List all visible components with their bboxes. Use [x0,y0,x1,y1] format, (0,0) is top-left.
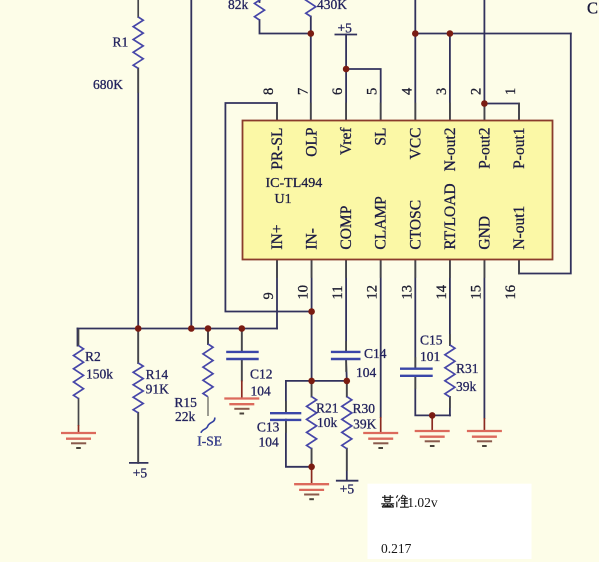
svg-text:C15: C15 [420,333,443,348]
svg-text:U1: U1 [275,192,292,207]
svg-text:PR-SL: PR-SL [269,128,286,170]
svg-text:R30: R30 [353,401,376,416]
svg-text:15: 15 [468,285,484,300]
svg-text:IC-TL494: IC-TL494 [266,176,323,191]
svg-text:CLAMP: CLAMP [373,196,390,249]
svg-text:N-out2: N-out2 [442,128,459,172]
svg-text:14: 14 [434,284,450,299]
svg-text:VCC: VCC [407,128,424,160]
svg-text:430K: 430K [317,0,347,12]
svg-text:+5: +5 [133,466,148,481]
svg-text:COMP: COMP [338,206,355,250]
svg-text:P-out2: P-out2 [476,128,493,169]
svg-text:104: 104 [251,384,272,399]
svg-text:OLP: OLP [304,128,321,157]
svg-text:+5: +5 [340,482,355,497]
svg-text:RT/LOAD: RT/LOAD [442,183,459,249]
svg-text:P-out1: P-out1 [511,128,528,169]
svg-text:5: 5 [365,88,381,95]
svg-text:680K: 680K [93,77,123,92]
svg-text:13: 13 [399,285,415,300]
svg-text:+5: +5 [338,21,353,36]
svg-text:150k: 150k [86,367,113,382]
svg-text:12: 12 [365,285,381,300]
svg-text:C: C [587,0,598,18]
svg-text:6: 6 [330,88,346,95]
svg-text:SL: SL [373,128,390,146]
svg-text:R15: R15 [174,395,197,410]
svg-text:R14: R14 [146,367,169,382]
svg-text:8: 8 [261,88,277,95]
svg-text:0.217: 0.217 [381,541,412,556]
svg-text:10: 10 [296,285,312,300]
svg-text:7: 7 [296,88,312,95]
svg-text:R2: R2 [85,349,101,364]
svg-text:C13: C13 [257,419,280,434]
svg-text:I-SE: I-SE [197,434,222,449]
svg-text:22k: 22k [175,409,196,424]
svg-text:IN-: IN- [304,228,321,250]
svg-text:9: 9 [261,292,277,299]
svg-text:16: 16 [503,285,519,300]
svg-text:104: 104 [259,434,280,449]
svg-text:101: 101 [420,349,440,364]
svg-text:Vref: Vref [338,127,355,155]
svg-text:104: 104 [356,365,377,380]
svg-text:39K: 39K [353,417,377,432]
svg-text:C12: C12 [250,367,273,382]
svg-text:3: 3 [434,88,450,95]
svg-text:GND: GND [476,216,493,250]
svg-text:2: 2 [468,88,484,95]
svg-text:R21: R21 [316,401,339,416]
svg-text:R31: R31 [456,361,479,376]
svg-text:N-out1: N-out1 [511,206,528,250]
svg-text:91K: 91K [146,382,170,397]
svg-text:1.02v: 1.02v [407,495,438,510]
svg-text:10k: 10k [317,415,338,430]
svg-text:11: 11 [330,286,346,300]
svg-text:CTOSC: CTOSC [407,200,424,250]
svg-text:39k: 39k [456,379,477,394]
svg-text:82k: 82k [228,0,249,12]
svg-text:4: 4 [399,87,415,95]
svg-text:IN+: IN+ [269,224,286,249]
svg-text:1: 1 [503,88,519,95]
svg-text:C14: C14 [364,346,387,361]
svg-text:R1: R1 [113,35,129,50]
